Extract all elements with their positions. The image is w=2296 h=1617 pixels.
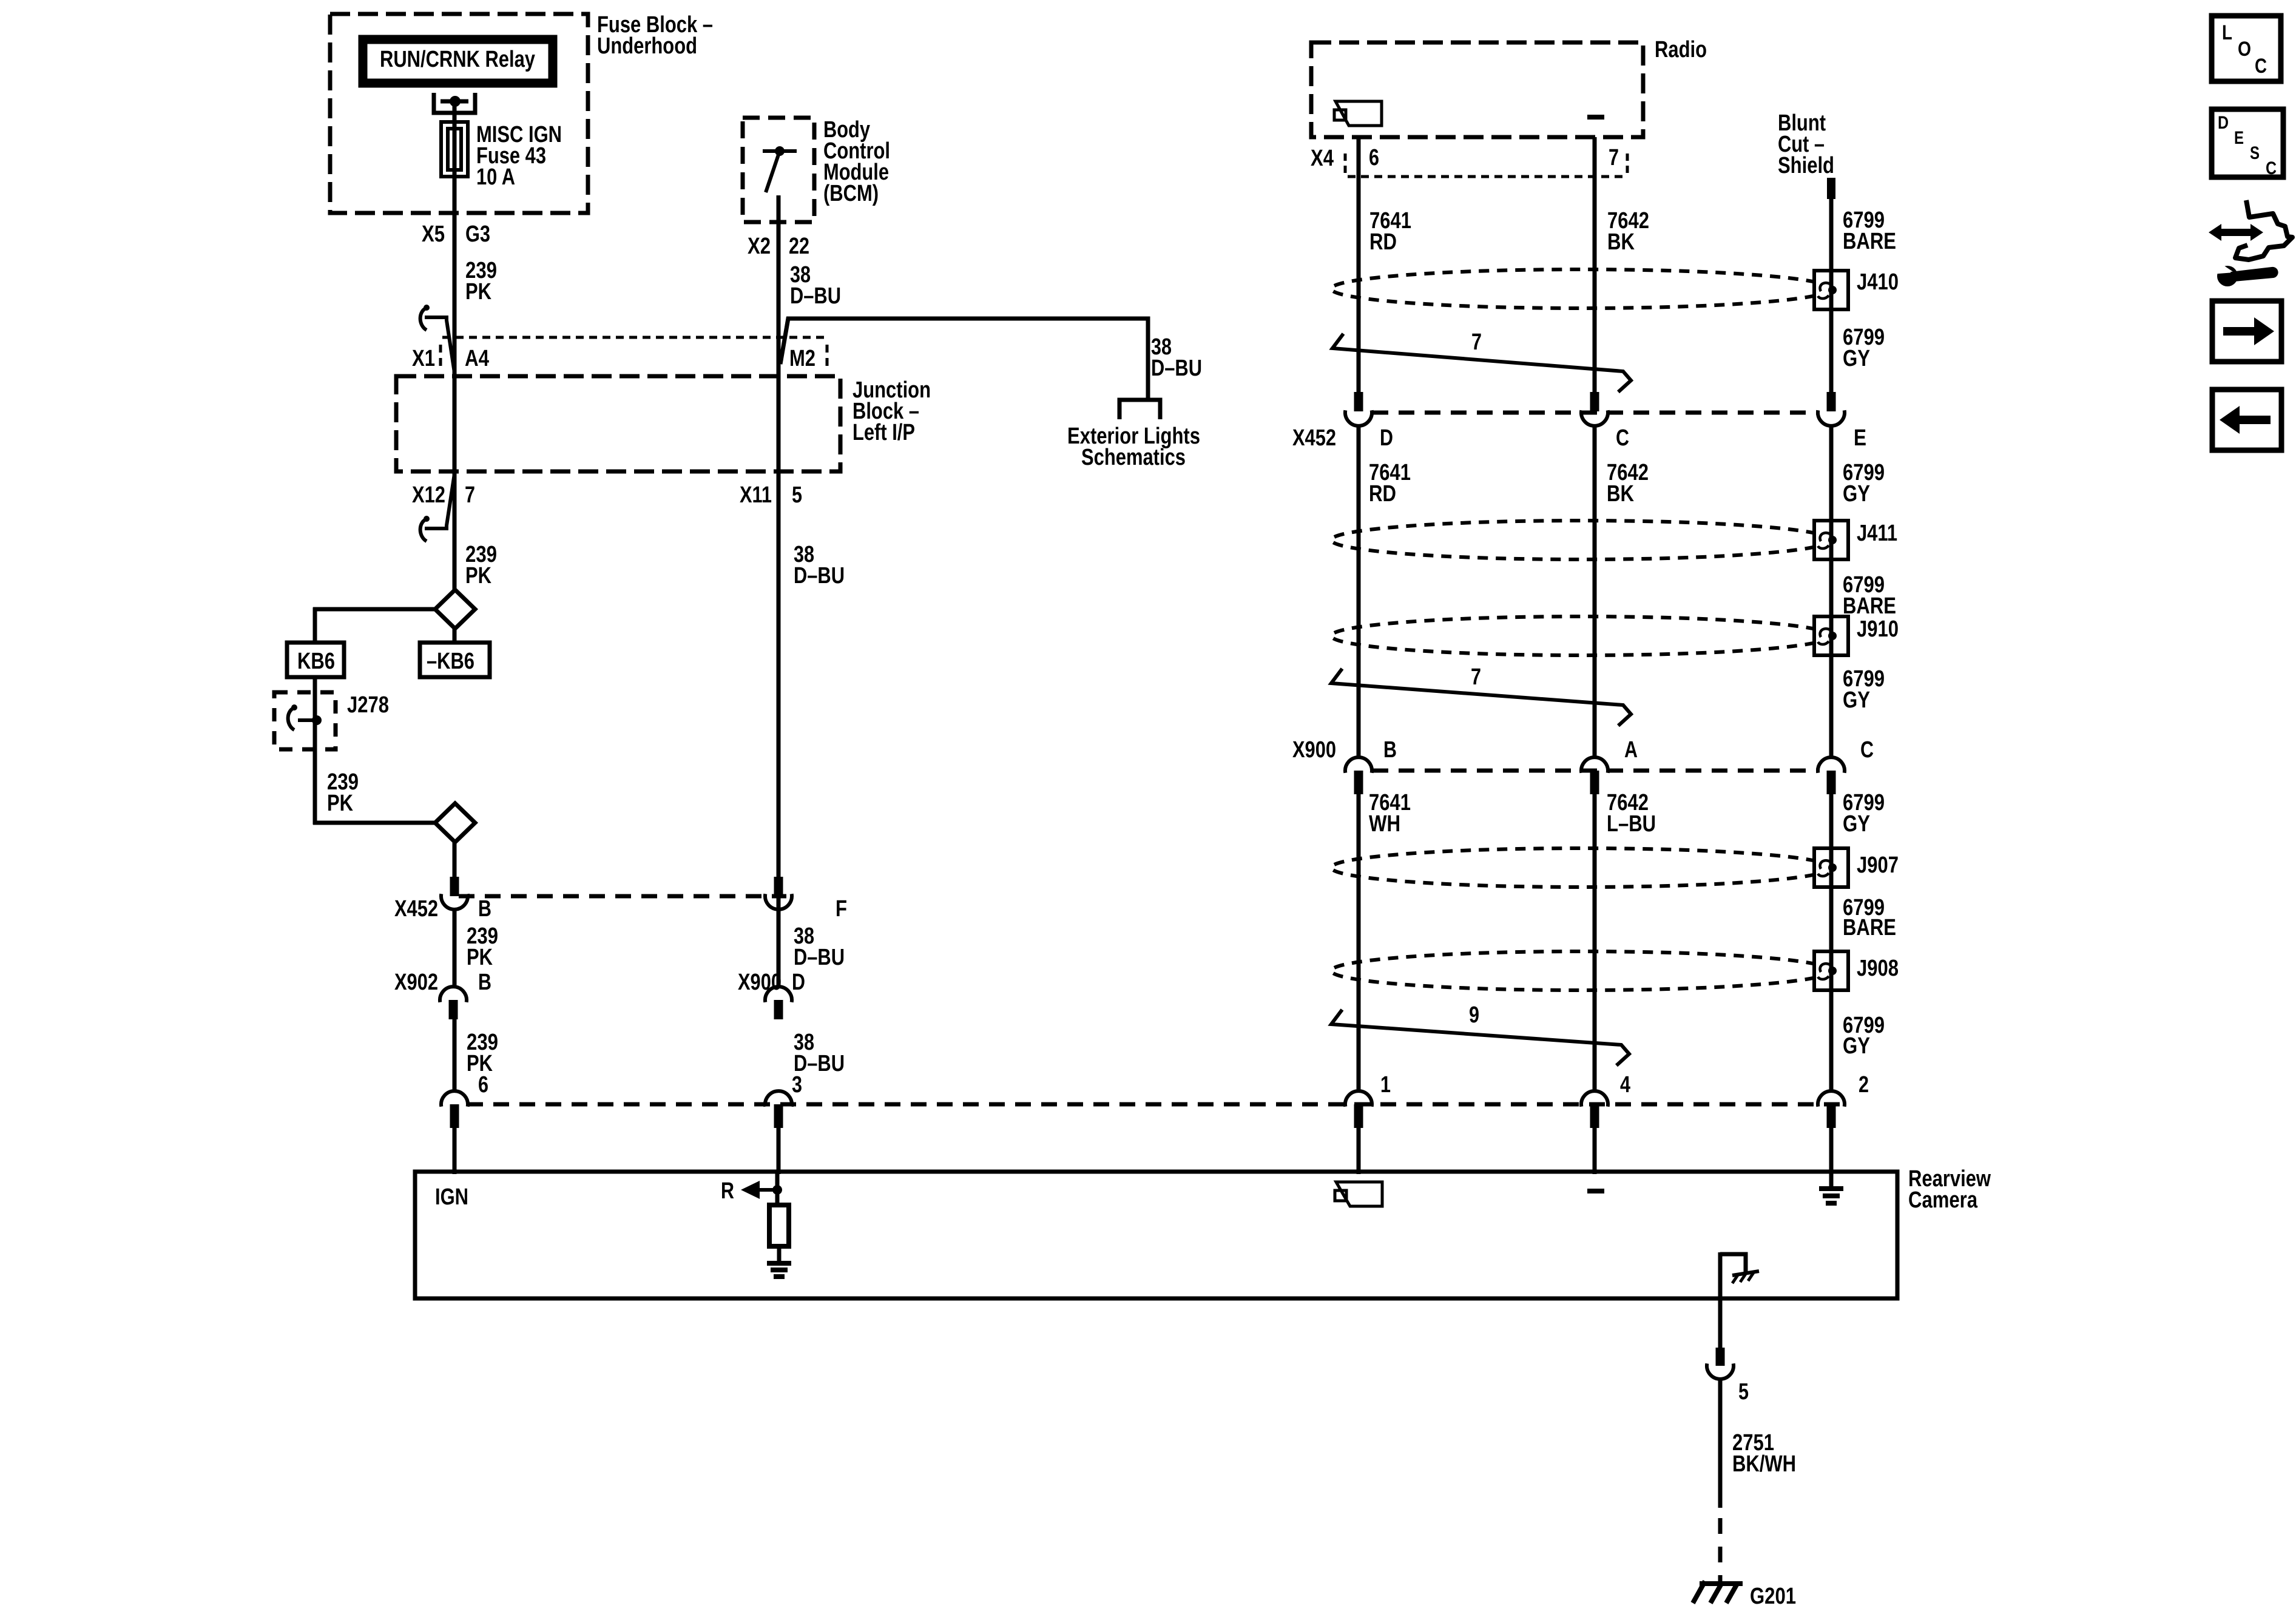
twisted pair marker 5 <box>1331 951 1831 990</box>
svg-text:BK/WH: BK/WH <box>1732 1451 1796 1477</box>
svg-text:6: 6 <box>1369 145 1379 170</box>
svg-text:4: 4 <box>1620 1072 1630 1098</box>
svg-text:Shield: Shield <box>1778 153 1834 178</box>
svg-text:BARE: BARE <box>1843 915 1896 940</box>
svg-text:5: 5 <box>792 482 802 508</box>
svg-text:7: 7 <box>465 482 475 508</box>
camera pin 1 connector <box>1345 1091 1372 1174</box>
label 6799 GY (below X900) <box>1843 790 1885 837</box>
termination resistor <box>769 1205 789 1246</box>
camera pins 1 4 2 labels <box>1380 1072 1869 1098</box>
connector row dashed line X452 right <box>1373 411 1818 415</box>
twisted pair marker 2 <box>1331 521 1831 559</box>
label MISC IGN Fuse 43 10 A <box>476 122 562 190</box>
label 239 PK (below X902) <box>467 1030 498 1076</box>
connector X452 pin F <box>765 877 792 910</box>
label 7641 WH <box>1369 790 1411 837</box>
icon harness wrench <box>2209 200 2292 286</box>
splice J907 <box>1814 848 1899 887</box>
camera icon in camera box <box>1335 1182 1382 1206</box>
splice J411 <box>1814 521 1897 559</box>
labels X1 A4 <box>412 346 489 371</box>
connector X900 pin D <box>765 987 792 1019</box>
svg-text:PK: PK <box>467 945 493 970</box>
svg-text:7: 7 <box>1471 664 1481 690</box>
rearview camera box outline <box>415 1172 1897 1298</box>
wire 6799 BARE upper <box>1829 198 1834 393</box>
camera pin 4 connector <box>1581 1091 1608 1174</box>
labels X452 D C E <box>1292 425 1866 451</box>
junction block left I/P dashed outline <box>396 376 840 471</box>
label Exterior Lights Schematics <box>1067 424 1200 470</box>
label 239 PK (below X12) <box>465 542 497 589</box>
label 6799 BARE (mid) <box>1843 572 1896 619</box>
label 5 <box>1738 1379 1749 1405</box>
svg-text:S: S <box>2250 143 2260 163</box>
svg-text:C: C <box>2255 55 2267 78</box>
svg-text:WH: WH <box>1369 811 1400 837</box>
connector X4 row <box>1345 154 1627 177</box>
shield ground bars <box>1819 1172 1843 1203</box>
splice J910 <box>1814 616 1899 655</box>
connector X902 pin B <box>440 987 467 1019</box>
svg-text:G201: G201 <box>1750 1584 1796 1609</box>
svg-text:RD: RD <box>1369 229 1397 255</box>
svg-text:KB6: KB6 <box>297 649 335 674</box>
splice J410 <box>1814 269 1899 309</box>
svg-text:X900: X900 <box>738 970 782 995</box>
svg-text:PK: PK <box>465 279 491 305</box>
label Radio <box>1655 37 1707 62</box>
wire 6799 GY lower <box>1829 793 1834 1093</box>
in-line connector X12 hook and slant <box>420 474 454 541</box>
labels X4 6 7 <box>1311 145 1619 171</box>
svg-text:D–BU: D–BU <box>794 945 845 970</box>
label 38 D-BU (below X900 D) <box>794 1030 845 1076</box>
in-line connector X1 hook and slant <box>420 305 454 373</box>
svg-text:E: E <box>2234 128 2244 148</box>
twist count 7 (middle) <box>1331 664 1631 726</box>
BCM internal switch <box>763 146 797 223</box>
icon DESC <box>2212 109 2283 178</box>
label G201 <box>1750 1584 1796 1609</box>
svg-text:O: O <box>2238 38 2251 61</box>
fuse box KB6 <box>287 643 344 677</box>
svg-text:(BCM): (BCM) <box>823 181 879 206</box>
svg-text:D: D <box>2218 113 2229 133</box>
diamond junction upper <box>435 590 475 629</box>
labels X11 5 <box>740 482 802 508</box>
wire 6799 GY middle <box>1829 425 1834 759</box>
label 2751 BK/WH <box>1732 1430 1796 1477</box>
wire to X902 <box>453 909 457 988</box>
wire 38 D-BU from BCM <box>777 222 781 988</box>
radio camera icon <box>1334 101 1382 126</box>
label 6799 GY (low) <box>1843 1013 1885 1059</box>
svg-text:X452: X452 <box>1292 425 1336 451</box>
svg-text:X2: X2 <box>748 234 771 259</box>
resistor ground <box>767 1247 791 1277</box>
radio minus terminal <box>1587 115 1604 120</box>
labels X900 B A C <box>1292 737 1874 763</box>
label 6799 GY (above X452) <box>1843 325 1885 371</box>
connector X5 G3 labels <box>422 221 490 247</box>
svg-text:F: F <box>836 896 847 922</box>
svg-text:G3: G3 <box>465 221 490 247</box>
wire main to -KB6 <box>453 629 457 644</box>
svg-text:R: R <box>721 1178 734 1204</box>
svg-text:X902: X902 <box>394 970 438 995</box>
svg-text:2: 2 <box>1859 1072 1869 1098</box>
svg-text:7: 7 <box>1609 145 1619 170</box>
connector X900 right pins <box>1345 757 1845 794</box>
icon arrow right <box>2212 301 2281 362</box>
svg-text:C: C <box>2266 158 2277 178</box>
svg-text:J278: J278 <box>347 692 389 718</box>
wire branch to KB6 <box>313 607 435 644</box>
M2 crossing slant <box>780 317 788 364</box>
connector X452 right pins <box>1345 392 1845 426</box>
svg-text:GY: GY <box>1843 811 1870 837</box>
svg-text:D: D <box>1380 425 1393 451</box>
twisted pair marker 1 <box>1331 269 1831 308</box>
label 7642 L-BU <box>1607 790 1656 837</box>
body control module dashed outline <box>743 118 814 222</box>
svg-text:GY: GY <box>1843 1033 1870 1059</box>
label 7642 BK <box>1607 208 1649 255</box>
svg-text:Camera: Camera <box>1908 1187 1978 1213</box>
svg-text:–KB6: –KB6 <box>427 649 474 674</box>
wire to camera pin 6 <box>453 1018 457 1093</box>
svg-text:6: 6 <box>478 1072 488 1098</box>
svg-text:BK: BK <box>1607 229 1635 255</box>
label 38 D-BU (below X11) <box>794 542 845 589</box>
label 239 PK (below X452) <box>467 923 498 970</box>
svg-text:J907: J907 <box>1857 852 1899 878</box>
label Junction Block - Left I/P <box>853 377 931 445</box>
relay box RUN/CRNK Relay <box>363 39 553 83</box>
wire 7641 RD <box>1357 137 1361 393</box>
svg-text:B: B <box>478 970 491 995</box>
wire KB6 branch down <box>313 677 317 825</box>
svg-text:IGN: IGN <box>435 1184 468 1210</box>
camera pin 6 connector <box>441 1072 488 1174</box>
label Blunt Cut - Shield <box>1778 110 1834 178</box>
svg-text:B: B <box>1383 737 1397 763</box>
svg-text:1: 1 <box>1380 1072 1391 1098</box>
svg-text:X5: X5 <box>422 221 445 247</box>
svg-text:M2: M2 <box>789 346 815 371</box>
labels X12 7 <box>412 482 475 508</box>
svg-text:3: 3 <box>792 1072 802 1098</box>
wire 7642 BK middle <box>1593 425 1597 759</box>
camera pins row dashed line <box>467 1102 1845 1107</box>
icon arrow left <box>2212 390 2281 450</box>
twisted pair marker 3 <box>1331 616 1831 655</box>
icon LOC <box>2212 16 2281 81</box>
connector row dashed line X900 right <box>1373 769 1818 773</box>
svg-text:B: B <box>478 896 491 922</box>
svg-text:BARE: BARE <box>1843 229 1896 254</box>
wire 7642 BK <box>1593 137 1597 393</box>
svg-text:RD: RD <box>1369 481 1396 507</box>
svg-text:GY: GY <box>1843 346 1870 371</box>
svg-text:GY: GY <box>1843 687 1870 713</box>
fuse box -KB6 <box>420 643 490 677</box>
svg-text:J410: J410 <box>1857 269 1899 295</box>
svg-text:C: C <box>1860 737 1874 763</box>
labels X902 B <box>394 970 491 995</box>
wire camera ground pin 5 <box>1707 1252 1734 1508</box>
svg-text:J411: J411 <box>1857 521 1897 546</box>
svg-text:D: D <box>792 970 805 995</box>
wire 7641 WH <box>1357 793 1361 1093</box>
wire 7641 RD middle <box>1357 425 1361 759</box>
wire 239 PK to X452 <box>453 842 457 879</box>
label 6799 GY (below J910) <box>1843 666 1885 713</box>
label 7641 RD <box>1369 208 1411 255</box>
diamond junction lower <box>435 803 475 842</box>
relay contact <box>434 93 475 123</box>
svg-text:E: E <box>1854 425 1866 451</box>
labels X900 D <box>738 970 805 995</box>
svg-text:Schematics: Schematics <box>1081 445 1186 470</box>
off-page connector exterior lights <box>1119 400 1160 419</box>
svg-text:10 A: 10 A <box>476 164 515 190</box>
svg-text:L–BU: L–BU <box>1607 811 1656 837</box>
svg-text:7: 7 <box>1471 329 1482 355</box>
svg-text:J908: J908 <box>1857 956 1899 981</box>
svg-text:X12: X12 <box>412 482 445 508</box>
label 38 D-BU (branch) <box>1151 334 1202 381</box>
label 6799 GY (mid) <box>1843 460 1885 507</box>
labels X2 22 <box>748 234 809 259</box>
svg-text:22: 22 <box>789 234 809 259</box>
label Body Control Module (BCM) <box>823 117 890 206</box>
svg-text:X900: X900 <box>1292 737 1336 763</box>
svg-text:GY: GY <box>1843 481 1870 507</box>
radio dashed outline <box>1311 42 1643 137</box>
svg-text:BARE: BARE <box>1843 593 1896 619</box>
svg-text:X4: X4 <box>1311 146 1334 171</box>
label 6799 BARE (low) <box>1843 895 1896 940</box>
blunt cut stub <box>1827 178 1835 199</box>
fuse MISC IGN Fuse 43 10A <box>441 122 468 178</box>
svg-text:BK: BK <box>1607 481 1634 507</box>
twisted pair marker 4 <box>1331 848 1831 887</box>
svg-text:J910: J910 <box>1857 616 1899 642</box>
label 38 D-BU (below X452 F) <box>794 923 845 970</box>
svg-text:X1: X1 <box>412 346 435 371</box>
svg-text:D–BU: D–BU <box>794 563 845 589</box>
twist count 7 (upper) <box>1332 329 1631 392</box>
camera pin 2 connector <box>1818 1091 1845 1174</box>
label 38 D-BU (upper) <box>790 262 841 309</box>
dashed wire to G201 <box>1718 1518 1723 1584</box>
svg-text:PK: PK <box>465 563 491 589</box>
svg-text:RUN/CRNK Relay: RUN/CRNK Relay <box>380 47 535 72</box>
label J278 <box>347 692 389 718</box>
label IGN <box>435 1184 468 1210</box>
splice J278 dashed box <box>274 692 336 749</box>
camera R input arrow <box>721 1172 782 1206</box>
camera minus terminal <box>1587 1189 1604 1193</box>
svg-text:Left I/P: Left I/P <box>853 420 915 445</box>
label 7641 RD (mid) <box>1369 460 1411 507</box>
camera pin 3 connector <box>765 1072 802 1174</box>
svg-text:D–BU: D–BU <box>1151 356 1202 381</box>
connector row dashed line X452 left <box>459 894 786 899</box>
svg-text:X11: X11 <box>740 482 772 508</box>
splice J908 <box>1814 951 1899 990</box>
svg-text:5: 5 <box>1738 1379 1749 1405</box>
connector row dotted line X1-M2 <box>441 337 829 368</box>
svg-text:D–BU: D–BU <box>790 283 841 309</box>
wire 7642 L-BU <box>1593 793 1597 1093</box>
svg-text:Radio: Radio <box>1655 37 1707 62</box>
label Rearview Camera <box>1908 1166 1991 1213</box>
twist count 9 <box>1331 1002 1629 1065</box>
labels X452 B F <box>394 896 847 922</box>
label Fuse Block - Underhood <box>597 12 713 59</box>
wire 239 PK from fuse to junction block <box>453 177 457 591</box>
connector X452 pin B <box>441 877 468 910</box>
label M2 <box>789 346 815 371</box>
ground G201 <box>1693 1581 1743 1603</box>
svg-text:9: 9 <box>1469 1002 1479 1028</box>
label 7642 BK (mid) <box>1607 460 1649 507</box>
camera chassis ground symbol <box>1720 1254 1759 1283</box>
fuse block underhood dashed outline <box>330 14 588 213</box>
svg-text:PK: PK <box>327 791 353 816</box>
label 239 PK (upper) <box>465 258 497 305</box>
svg-text:A4: A4 <box>465 346 489 371</box>
wire KB6 branch to diamond <box>313 821 435 825</box>
svg-text:L: L <box>2222 21 2232 44</box>
wire branch 38 D-BU to exterior lights <box>780 319 1148 398</box>
svg-text:C: C <box>1616 425 1629 451</box>
label 6799 BARE (top) <box>1843 208 1896 254</box>
label 239 PK (KB6 branch) <box>327 769 359 816</box>
svg-text:X452: X452 <box>394 896 438 922</box>
svg-text:Underhood: Underhood <box>597 33 697 59</box>
svg-text:A: A <box>1624 737 1638 763</box>
